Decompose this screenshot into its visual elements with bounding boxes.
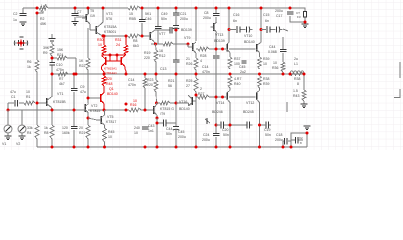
ground X2 bbox=[304, 126, 311, 130]
svg-text:27: 27 bbox=[186, 84, 190, 88]
wire vert x280 bbox=[282, 37, 284, 74]
svg-text:VT3: VT3 bbox=[106, 12, 112, 16]
junction x304 y74 bbox=[303, 73, 306, 76]
junction R30 top bbox=[103, 35, 106, 38]
svg-text:0.068: 0.068 bbox=[268, 50, 277, 54]
svg-text:R1: R1 bbox=[26, 95, 31, 99]
svg-text:R25: R25 bbox=[186, 79, 192, 83]
wire X2 box bbox=[291, 133, 307, 147]
transistor VT16 bbox=[179, 95, 196, 111]
wire right edge clip A bbox=[399, 62, 401, 78]
resistor R45 bbox=[103, 128, 115, 147]
wire out LR net bbox=[290, 73, 302, 75]
junction x88 y147 bbox=[87, 146, 90, 149]
junction x229 caprow bbox=[228, 28, 231, 31]
wire X2 cap stub bbox=[291, 139, 303, 141]
svg-text:C19: C19 bbox=[264, 128, 270, 132]
wire q1 base y98 bbox=[88, 97, 100, 99]
resistor R13 lower bbox=[154, 67, 166, 92]
junction x216 y125 bbox=[215, 124, 218, 127]
svg-text:C8: C8 bbox=[204, 11, 209, 15]
svg-text:Q1: Q1 bbox=[109, 87, 114, 91]
wire y103 to VT16 bbox=[176, 103, 189, 106]
junction x216 top bbox=[215, 7, 218, 10]
junction out base a bbox=[215, 96, 218, 99]
svg-text:160k: 160k bbox=[62, 131, 70, 135]
junction C7 bbox=[74, 7, 77, 10]
svg-text:C7: C7 bbox=[77, 10, 82, 14]
svg-text:C45: C45 bbox=[178, 130, 184, 134]
junction x290 y74 bbox=[289, 73, 292, 76]
svg-text:C1: C1 bbox=[11, 95, 16, 99]
capacitor X2 cap bbox=[296, 136, 304, 145]
svg-text:L1: L1 bbox=[294, 62, 298, 66]
wire vert x216 bbox=[215, 8, 217, 147]
svg-text:200u: 200u bbox=[275, 9, 283, 13]
capacitor C45b bbox=[239, 61, 247, 74]
svg-text:V2: V2 bbox=[16, 142, 20, 146]
svg-text:21: 21 bbox=[186, 57, 190, 61]
ground V1 bbox=[5, 136, 12, 140]
wire vert x74 mid bbox=[73, 74, 75, 147]
wire vert x103 top bbox=[102, 8, 104, 22]
svg-text:15: 15 bbox=[129, 12, 133, 16]
resistor R6 bbox=[27, 60, 39, 72]
wire vert x52 upper bbox=[51, 34, 53, 74]
resistor R8 bbox=[44, 125, 54, 139]
svg-text:/19: /19 bbox=[90, 14, 95, 18]
resistor R22 bbox=[79, 58, 90, 70]
wire cap19 stub bbox=[230, 124, 253, 126]
svg-text:220: 220 bbox=[147, 83, 153, 87]
resistor R1 bbox=[24, 90, 35, 105]
svg-text:C20: C20 bbox=[222, 128, 228, 132]
svg-text:R24: R24 bbox=[57, 53, 63, 57]
svg-text:C24: C24 bbox=[203, 133, 209, 137]
wire vert x37 bbox=[36, 13, 38, 147]
junction x176 y74 bbox=[175, 73, 178, 76]
junction x104 y74 bbox=[103, 73, 106, 76]
junction x156 y74 bbox=[155, 73, 158, 76]
wire vas base y44 bbox=[155, 43, 188, 45]
transistor VT2 bbox=[85, 104, 100, 114]
junction x157 y123 bbox=[156, 122, 159, 125]
svg-text:16: 16 bbox=[159, 49, 163, 53]
capacitor C21 bbox=[173, 12, 188, 21]
svg-text:C13: C13 bbox=[160, 67, 166, 71]
svg-text:4k7: 4k7 bbox=[59, 82, 65, 86]
svg-text:BD139: BD139 bbox=[181, 28, 192, 32]
transistor Q1 red bbox=[101, 86, 118, 110]
ground R43 bbox=[301, 104, 308, 108]
wire top rail bbox=[23, 7, 290, 9]
wire top-left corner drop bbox=[22, 8, 24, 13]
capacitor C45 pol bbox=[173, 127, 186, 140]
svg-text:VT14: VT14 bbox=[216, 101, 224, 105]
wire red mirror top bbox=[102, 54, 127, 56]
junction x52 y58 bbox=[51, 57, 54, 60]
wire cap20 stub bbox=[216, 124, 230, 126]
svg-text:VT16: VT16 bbox=[179, 100, 187, 104]
junction x305 y22 bbox=[304, 21, 307, 24]
junction x176 y147 bbox=[175, 146, 178, 149]
svg-text:R26: R26 bbox=[186, 62, 192, 66]
svg-text:1n1: 1n1 bbox=[148, 129, 154, 133]
resistor R43 bbox=[293, 89, 306, 101]
capacitor C7 bbox=[72, 10, 86, 19]
label red pair bbox=[104, 67, 117, 76]
svg-text:50n: 50n bbox=[166, 132, 172, 136]
junction x260 y147 bbox=[258, 146, 261, 149]
transistor Q3 red bbox=[121, 56, 126, 75]
svg-text:20: 20 bbox=[79, 126, 83, 130]
wire bottom rail y147 bbox=[37, 146, 307, 148]
resistor R34 bbox=[258, 57, 270, 69]
junction R2 top bbox=[36, 7, 39, 10]
svg-text:C2: C2 bbox=[13, 12, 18, 16]
junction x145 y147 bbox=[144, 146, 147, 149]
wire vert x261 top bbox=[260, 8, 262, 43]
svg-text:C14: C14 bbox=[128, 78, 134, 82]
wire vas out y103 bbox=[157, 102, 177, 104]
junction x176 top bbox=[175, 7, 178, 10]
capacitor C20 bbox=[221, 122, 229, 138]
junction Q1 emit bbox=[103, 109, 106, 112]
svg-text:BD140: BD140 bbox=[179, 107, 190, 111]
junction x260 y74 bbox=[258, 73, 261, 76]
junction X2 corner bbox=[306, 132, 309, 135]
svg-text:BD245: BD245 bbox=[243, 110, 254, 114]
svg-text:47u: 47u bbox=[10, 90, 16, 94]
svg-text:R6: R6 bbox=[27, 60, 32, 64]
wire vert x52 lower bbox=[51, 74, 53, 147]
wire T10 emit down bbox=[156, 118, 158, 147]
transistor VT13 mark bbox=[205, 118, 210, 124]
svg-text:C43: C43 bbox=[148, 124, 154, 128]
svg-text:R27: R27 bbox=[198, 92, 204, 96]
svg-text:R28: R28 bbox=[200, 54, 206, 58]
svg-text:24: 24 bbox=[116, 43, 120, 47]
capacitor C17 bbox=[275, 9, 293, 18]
junction x145 y110 bbox=[144, 109, 147, 112]
transistor VD bias bbox=[211, 17, 217, 33]
resistor R12 upper bbox=[144, 49, 165, 62]
svg-text:200u: 200u bbox=[275, 138, 283, 142]
junction x8 y110 bbox=[7, 109, 10, 112]
svg-text:KT815B: KT815B bbox=[53, 100, 66, 104]
junction Q2Q3 base b bbox=[116, 54, 119, 57]
junction x283 y74 bbox=[282, 73, 285, 76]
resistor R27 bbox=[198, 47, 209, 63]
svg-text:C16: C16 bbox=[233, 13, 239, 17]
input port X1 bbox=[14, 37, 28, 49]
svg-text:R45: R45 bbox=[108, 130, 114, 134]
junction x216 y147 bbox=[215, 146, 218, 149]
junction x158 top bbox=[157, 7, 160, 10]
svg-text:45K: 45K bbox=[40, 22, 47, 26]
svg-text:2u2: 2u2 bbox=[240, 70, 246, 74]
svg-text:R37: R37 bbox=[234, 57, 240, 61]
junction x176 y30 bbox=[175, 29, 178, 32]
capacitor C43 bbox=[134, 124, 154, 135]
resistor R21 bbox=[79, 125, 90, 139]
svg-text:10: 10 bbox=[273, 61, 277, 65]
svg-text:2: 2 bbox=[200, 87, 202, 91]
wire t7 coll y30 bbox=[155, 29, 176, 31]
ground C7 bbox=[72, 22, 79, 26]
wire x145 midlow bbox=[144, 74, 146, 110]
svg-text:470n: 470n bbox=[128, 83, 136, 87]
svg-text:200u: 200u bbox=[178, 135, 186, 139]
svg-text:KT814A1: KT814A1 bbox=[104, 71, 117, 75]
svg-text:4.R7: 4.R7 bbox=[234, 77, 241, 81]
svg-text:C46: C46 bbox=[145, 17, 151, 21]
svg-text:C21: C21 bbox=[180, 12, 186, 16]
capacitor C19 bbox=[247, 122, 249, 129]
svg-text:1.5: 1.5 bbox=[293, 89, 298, 93]
transistor VT11 bbox=[257, 43, 262, 58]
resistor R5 bbox=[128, 6, 140, 21]
capacitor C12 pol bbox=[173, 26, 179, 29]
junction x157 y147 bbox=[156, 146, 159, 149]
junction VT1 emit bbox=[51, 109, 54, 112]
wire vert x142 bbox=[142, 8, 145, 36]
junction x229 top bbox=[228, 7, 231, 10]
source V1 bbox=[2, 110, 12, 146]
svg-text:R36: R36 bbox=[272, 66, 278, 70]
transistor Q2 red bbox=[102, 56, 106, 75]
junction x74 y74 bbox=[73, 73, 76, 76]
capacitor C49 bbox=[155, 12, 168, 29]
junction drv base a bbox=[215, 48, 218, 51]
junction R1 VT1 bbox=[36, 102, 39, 105]
svg-text:100: 100 bbox=[234, 62, 240, 66]
ground V2 bbox=[19, 136, 26, 140]
resistor R25 bbox=[186, 78, 198, 92]
junction T5 coll bbox=[87, 7, 90, 10]
resistor R24 bbox=[57, 48, 67, 60]
transistor VT1 bbox=[47, 92, 67, 110]
junction x196 y74 bbox=[195, 73, 198, 76]
junction T10 emit bbox=[156, 117, 159, 120]
junction x76 y74 bbox=[75, 73, 78, 76]
svg-text:33k: 33k bbox=[27, 126, 33, 130]
junction VT3 emit bbox=[102, 35, 105, 38]
svg-text:KT815 G: KT815 G bbox=[160, 107, 174, 111]
junction x230 y74 bbox=[229, 73, 232, 76]
svg-text:120: 120 bbox=[62, 126, 68, 130]
svg-text:1u: 1u bbox=[13, 18, 17, 22]
junction x290 top bbox=[289, 7, 292, 10]
wire out base y97 bbox=[196, 96, 256, 98]
svg-text:6k3: 6k3 bbox=[133, 44, 139, 48]
svg-text:VT9: VT9 bbox=[184, 36, 190, 40]
capacitor C8 top bbox=[49, 39, 56, 42]
svg-text:R12: R12 bbox=[159, 54, 165, 58]
svg-text:R5B: R5B bbox=[129, 17, 136, 21]
svg-text:VT5: VT5 bbox=[107, 115, 113, 119]
svg-text:47u: 47u bbox=[80, 90, 86, 94]
svg-text:50n: 50n bbox=[161, 17, 167, 21]
capacitor C19b bbox=[264, 122, 271, 138]
transistor T9 bbox=[181, 28, 196, 54]
transistor T10 bbox=[145, 103, 174, 118]
junction x155 y44 bbox=[154, 43, 157, 46]
fuse F3 bbox=[296, 11, 307, 19]
wire cap19b stub bbox=[260, 124, 272, 126]
svg-text:V1: V1 bbox=[2, 142, 6, 146]
svg-text:C18: C18 bbox=[276, 133, 282, 137]
svg-text:50n: 50n bbox=[223, 133, 229, 137]
svg-text:C10: C10 bbox=[56, 63, 62, 67]
svg-text:R40: R40 bbox=[234, 82, 240, 86]
svg-text:R23: R23 bbox=[147, 78, 153, 82]
junction x260 y125 bbox=[258, 124, 261, 127]
junction x126 y74 bbox=[125, 73, 128, 76]
junction x74 y110 bbox=[73, 109, 76, 112]
resistor R26 bbox=[186, 57, 198, 70]
trimmer R2 bbox=[37, 4, 48, 26]
wire output rail y74 bbox=[51, 73, 304, 75]
svg-text:C45: C45 bbox=[239, 65, 245, 69]
svg-text:R39: R39 bbox=[263, 57, 269, 61]
ground top right bbox=[302, 24, 309, 28]
svg-text:10: 10 bbox=[108, 135, 112, 139]
junction R31 top bbox=[125, 35, 128, 38]
wire vas emitter y36 bbox=[103, 34, 145, 36]
svg-text:2u: 2u bbox=[294, 57, 298, 61]
svg-text:1k: 1k bbox=[44, 126, 48, 130]
svg-text:200u: 200u bbox=[203, 16, 211, 20]
inductor L1 bbox=[290, 57, 304, 74]
resistor R11 bbox=[163, 36, 190, 46]
svg-text:VT1: VT1 bbox=[57, 92, 63, 96]
capacitor C14 bbox=[202, 56, 219, 74]
svg-text:VT2: VT2 bbox=[91, 104, 97, 108]
resistor R41 bbox=[258, 76, 270, 88]
svg-text:6n: 6n bbox=[265, 19, 269, 23]
svg-text:R8: R8 bbox=[133, 39, 138, 43]
svg-text:10: 10 bbox=[133, 99, 137, 103]
svg-text:X2: X2 bbox=[299, 136, 303, 140]
svg-text:10: 10 bbox=[98, 43, 102, 47]
junction R2 wiper bbox=[36, 12, 39, 15]
junction x261 top bbox=[260, 7, 263, 10]
svg-text:R8: R8 bbox=[44, 131, 49, 135]
svg-text:R7: R7 bbox=[59, 77, 64, 81]
resistor R29 bbox=[198, 87, 209, 99]
junction x126 y110 bbox=[125, 109, 128, 112]
svg-text:C9: C9 bbox=[80, 85, 85, 89]
capacitor C5 bbox=[62, 126, 77, 135]
svg-text:C15: C15 bbox=[263, 13, 269, 17]
junction x230 y125 bbox=[229, 124, 232, 127]
ground C2 bbox=[20, 22, 27, 26]
svg-text:R21: R21 bbox=[79, 131, 85, 135]
junction x188 y44 bbox=[187, 43, 190, 46]
capacitor C24 bbox=[202, 133, 219, 142]
junction out base b bbox=[221, 96, 224, 99]
svg-text:5K1: 5K1 bbox=[145, 12, 151, 16]
wire vert x75 C7 bbox=[74, 8, 76, 21]
svg-text:C17: C17 bbox=[276, 14, 282, 18]
svg-text:R38: R38 bbox=[294, 77, 300, 81]
svg-text:R22: R22 bbox=[79, 64, 85, 68]
junction x156 y103 bbox=[155, 102, 158, 105]
svg-text:BD246: BD246 bbox=[212, 110, 223, 114]
source V2 bbox=[16, 110, 26, 146]
wire vert x196 bbox=[195, 8, 197, 147]
svg-text:5T6: 5T6 bbox=[106, 17, 112, 21]
svg-text:240: 240 bbox=[134, 126, 140, 130]
svg-text:R21: R21 bbox=[168, 79, 174, 83]
input port X1 pin bbox=[19, 41, 22, 44]
capacitor C11 bbox=[170, 27, 172, 34]
svg-text:200u: 200u bbox=[180, 17, 188, 21]
junction Q2Q3 base a bbox=[109, 54, 112, 57]
svg-text:39K: 39K bbox=[43, 46, 50, 50]
wire input row y103 bbox=[8, 103, 46, 110]
resistor R32 red bbox=[102, 74, 112, 86]
svg-text:T5: T5 bbox=[90, 9, 94, 13]
junction x231 y147 bbox=[229, 146, 232, 149]
svg-text:VT7: VT7 bbox=[159, 32, 165, 36]
junction x74 y147 bbox=[73, 146, 76, 149]
svg-text:R39: R39 bbox=[263, 82, 269, 86]
resistor R38 out bbox=[290, 73, 304, 87]
junction x104 y147 bbox=[103, 146, 106, 149]
transistor VT10 bbox=[214, 33, 255, 57]
junction x52 y147 bbox=[51, 146, 54, 149]
wire vert x304 gnd chain bbox=[303, 74, 305, 104]
svg-text:10: 10 bbox=[26, 90, 30, 94]
svg-text:VT12: VT12 bbox=[246, 101, 254, 105]
svg-text:6n: 6n bbox=[233, 19, 237, 23]
svg-text:C49: C49 bbox=[161, 12, 167, 16]
svg-text:KT8001: KT8001 bbox=[104, 30, 116, 34]
svg-text:KT815: KT815 bbox=[90, 109, 100, 113]
wire drv base y49 bbox=[196, 48, 256, 50]
transistor VT3 bbox=[90, 12, 117, 36]
junction x142 top bbox=[141, 7, 144, 10]
svg-text:10: 10 bbox=[263, 62, 267, 66]
junction VT3 coll bbox=[102, 7, 105, 10]
svg-text:R16: R16 bbox=[130, 103, 136, 107]
svg-text:R31: R31 bbox=[115, 38, 121, 42]
resistor R4 bbox=[27, 125, 39, 139]
junction drv base b bbox=[221, 48, 224, 51]
capacitor C15 row bbox=[261, 13, 283, 33]
resistor R31 red bbox=[115, 36, 128, 55]
transistor VT14 bbox=[212, 88, 230, 147]
transistor T5 bbox=[82, 8, 95, 26]
wire top-right loop bbox=[290, 8, 305, 22]
wire vert x88 bbox=[87, 8, 89, 147]
svg-text:50n: 50n bbox=[265, 133, 271, 137]
wire vert x229 top bbox=[228, 8, 230, 43]
capacitor C8b bbox=[203, 11, 219, 20]
resistor R23 x145 bbox=[143, 78, 153, 88]
svg-text:R30: R30 bbox=[97, 38, 103, 42]
svg-text:C44: C44 bbox=[269, 45, 275, 49]
svg-text:R4: R4 bbox=[27, 131, 32, 135]
resistor R33 bbox=[228, 57, 240, 69]
junction x196 top bbox=[195, 7, 198, 10]
svg-text:KT817: KT817 bbox=[106, 120, 116, 124]
junction VT2 emit bbox=[87, 117, 90, 120]
svg-text:F3: F3 bbox=[297, 15, 301, 19]
svg-text:4: 4 bbox=[200, 59, 202, 63]
